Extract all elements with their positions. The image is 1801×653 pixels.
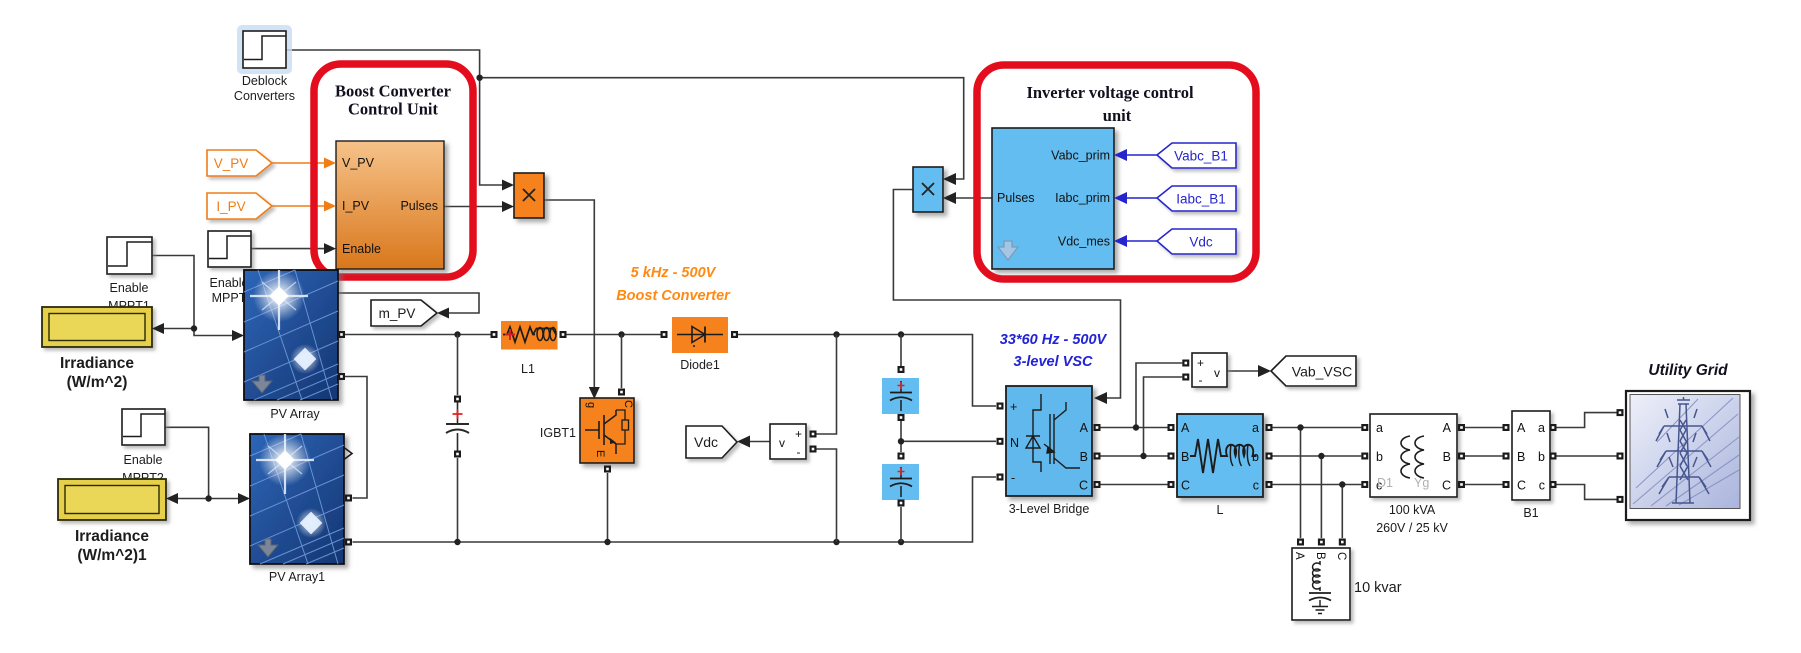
svg-text:Irradiance: Irradiance [60, 355, 134, 372]
node junction phase A tap [1133, 424, 1139, 430]
subsystem Inverter voltage control unit [992, 128, 1114, 269]
wire B1 to Utility Grid phase c [1557, 485, 1617, 500]
svg-text:3-level VSC: 3-level VSC [1014, 354, 1094, 370]
wire Vab_VSC voltmeter plus to phase A [1136, 363, 1182, 428]
svg-text:v: v [779, 436, 785, 450]
svg-text:C: C [622, 400, 634, 408]
wire transformer to B1 phase B [1465, 455, 1503, 457]
wire L to transformer phase c [1273, 484, 1362, 486]
arrowhead into PV Array Ir input [232, 330, 244, 341]
svg-text:C: C [1335, 552, 1347, 560]
svg-text:Boost Converter: Boost Converter [335, 82, 451, 101]
node junction shunt tap b [1318, 453, 1324, 459]
node junction bottom rail at capacitor [454, 539, 460, 545]
svg-text:I_PV: I_PV [216, 199, 245, 214]
node junction top rail at voltmeter [833, 331, 839, 337]
annotation box Inverter voltage control unit [977, 65, 1256, 279]
tag I_PV [207, 193, 272, 219]
step source Enable MPPT [208, 231, 251, 305]
svg-text:g: g [585, 402, 597, 408]
node junction bottom rail at capacitor C2 [898, 539, 904, 545]
block PV Array [244, 270, 338, 421]
wire B1 to Utility Grid phase b [1557, 455, 1617, 457]
wire Enable MPPT to Boost control Enable [251, 248, 327, 250]
arrowhead into PV Array1 Ir input [238, 493, 250, 504]
wire Vab_VSC voltmeter minus to phase B [1144, 377, 1183, 456]
svg-text:PV Array: PV Array [270, 407, 320, 421]
svg-text:Vabc_B1: Vabc_B1 [1174, 149, 1228, 164]
wire DC midpoint capacitors [901, 335, 996, 543]
tag Vdc from [1157, 229, 1236, 254]
node junction DC midpoint [898, 438, 904, 444]
wire inverter Pulses to X2 [954, 197, 992, 199]
arrowhead Vdc_mes input [1114, 235, 1127, 247]
step source Enable MPPT1 [107, 237, 152, 313]
wire Enable MPPT1 to Irradiance display and PV Array [152, 256, 235, 336]
svg-text:B: B [1314, 552, 1326, 560]
svg-text:c: c [1539, 479, 1545, 493]
svg-text:N: N [1010, 436, 1019, 450]
arrowhead into Vab_VSC tag [1258, 365, 1271, 377]
annotation box Boost Converter Control Unit [314, 64, 473, 277]
svg-text:V_PV: V_PV [214, 156, 249, 171]
display Irradiance (W/m^2) [42, 307, 152, 391]
svg-text:Control Unit: Control Unit [348, 100, 438, 119]
port squares [338, 331, 1624, 546]
node junction MPPT2 branch [205, 495, 211, 501]
arrowhead into Irradiance display1 [166, 493, 178, 504]
svg-text:Deblock: Deblock [242, 74, 288, 88]
tag Vab_VSC [1271, 356, 1356, 386]
wire Vdc tag to inverter control [1127, 240, 1157, 242]
tag Vabc_B1 [1157, 143, 1236, 168]
arrowhead I_PV into block [324, 201, 336, 212]
block Utility Grid [1626, 362, 1750, 520]
wire transformer to B1 phase C [1465, 484, 1503, 486]
svg-text:D1: D1 [1377, 476, 1393, 490]
svg-text:a: a [1252, 421, 1259, 435]
annotation title Inverter voltage control unit [1026, 83, 1194, 125]
annotation title Boost Converter Control Unit [335, 82, 451, 119]
unconnected output chevron PV Array1 m [344, 448, 352, 460]
svg-text:10 kvar: 10 kvar [1354, 580, 1402, 596]
svg-text:Pulses: Pulses [400, 199, 438, 213]
wire L to transformer phase a [1273, 427, 1362, 429]
svg-text:B: B [1181, 450, 1189, 464]
wire DC bottom rail [353, 477, 997, 542]
wire voltmeter Vdc output to Vdc tag [746, 441, 770, 443]
svg-text:+: + [1010, 400, 1017, 414]
svg-text:100 kVA: 100 kVA [1389, 503, 1436, 517]
svg-text:-: - [1011, 471, 1015, 485]
svg-text:A: A [1443, 421, 1452, 435]
arrowhead X2 input1 [943, 173, 956, 185]
svg-text:MPPT: MPPT [212, 291, 247, 305]
svg-text:260V / 25 kV: 260V / 25 kV [1376, 521, 1448, 535]
shunt filter 10 kvar [1292, 548, 1402, 620]
node junction top rail at capacitor C1 [898, 331, 904, 337]
arrowhead Iabc_prim input [1114, 192, 1127, 204]
arrowhead into Vdc tag [737, 436, 750, 448]
wire Enable MPPT2 to Irradiance display1 and PV Array1 [165, 427, 241, 498]
svg-text:Yg: Yg [1414, 476, 1429, 490]
node junction MPPT1 branch [191, 325, 197, 331]
tag Iabc_B1 [1157, 186, 1236, 211]
svg-text:(W/m^2): (W/m^2) [67, 374, 128, 391]
tag m_PV [371, 300, 437, 326]
node junction Deblock branch [476, 75, 482, 81]
display Irradiance (W/m^2)1 [58, 479, 166, 564]
wire voltmeter Vdc minus [817, 449, 837, 542]
wire X2 output to 3-Level Bridge pulses [893, 190, 1120, 399]
capacitor C2 DC link [882, 464, 919, 500]
svg-text:v: v [1214, 366, 1220, 380]
svg-text:5 kHz - 500V: 5 kHz - 500V [631, 265, 717, 281]
svg-text:+: + [795, 427, 802, 441]
arrowhead X1 input2 [502, 201, 514, 212]
svg-text:b: b [1376, 450, 1383, 464]
wire V_PV tag to boost control [272, 162, 327, 164]
diode Diode1 [672, 317, 728, 372]
svg-text:A: A [1293, 552, 1305, 560]
wire voltmeter Vdc plus [817, 335, 837, 435]
svg-text:Enable: Enable [342, 242, 381, 256]
filter inductor L three-phase [1177, 414, 1263, 517]
svg-text:A: A [1181, 421, 1190, 435]
transformer 100 kVA 260V/25kV [1370, 414, 1457, 535]
svg-text:33*60 Hz - 500V: 33*60 Hz - 500V [1000, 332, 1108, 348]
svg-text:c: c [1253, 479, 1259, 493]
svg-text:b: b [1538, 450, 1545, 464]
arrowhead into Irradiance display [152, 323, 164, 334]
svg-text:Enable: Enable [110, 281, 149, 295]
svg-text:C: C [1442, 479, 1451, 493]
svg-text:C: C [1517, 479, 1526, 493]
svg-text:L: L [1217, 503, 1224, 517]
svg-text:a: a [1538, 421, 1545, 435]
svg-text:Boost Converter: Boost Converter [616, 288, 731, 304]
product block X1 [514, 173, 544, 218]
svg-text:m_PV: m_PV [379, 306, 416, 321]
wire capacitor branch [457, 335, 459, 543]
capacitor C1 DC link [882, 378, 919, 414]
wire PV Array minus to PV Array1 plus [345, 377, 367, 499]
wire PV Array m output to m_PV tag [338, 293, 479, 313]
arrowhead IGBT gate [589, 387, 600, 399]
svg-text:C: C [1181, 479, 1190, 493]
svg-text:Iabc_B1: Iabc_B1 [1176, 192, 1226, 207]
wire B1 to Utility Grid phase a [1557, 413, 1617, 428]
svg-text:A: A [1517, 421, 1526, 435]
wire I_PV tag to boost control [272, 205, 327, 207]
svg-text:Vdc: Vdc [1189, 235, 1213, 250]
converter 3-Level Bridge [1006, 386, 1092, 516]
capacitor C PV bus [446, 402, 469, 451]
wire Iabc_B1 tag to inverter control [1127, 197, 1157, 199]
svg-text:I_PV: I_PV [342, 199, 370, 213]
wire bridge phase C to L [1101, 484, 1168, 486]
svg-text:C: C [1079, 479, 1088, 493]
svg-text:3-Level Bridge: 3-Level Bridge [1009, 502, 1090, 516]
wire bridge phase B to L [1101, 455, 1168, 457]
wire 10 kvar shunt taps [1301, 428, 1343, 539]
arrowhead Enable into block [324, 243, 336, 254]
svg-text:PV Array1: PV Array1 [269, 570, 325, 584]
arrowhead into m_PV tag [437, 308, 449, 319]
node junction shunt tap a [1297, 424, 1303, 430]
svg-text:B: B [1517, 450, 1525, 464]
svg-text:Vab_VSC: Vab_VSC [1292, 364, 1352, 380]
svg-text:Pulses: Pulses [997, 191, 1035, 205]
node junction phase B tap [1140, 453, 1146, 459]
wire X1 output to IGBT1 gate [544, 200, 594, 389]
step source Enable MPPT2 [122, 409, 165, 485]
svg-text:Irradiance: Irradiance [75, 528, 149, 545]
node junction shunt tap c [1339, 481, 1345, 487]
wire DC top rail [345, 334, 494, 336]
svg-text:a: a [1376, 421, 1383, 435]
voltmeter Vdc [770, 424, 806, 459]
wire Deblock to X1 and inverter X2 [286, 50, 964, 185]
inductor L1 [501, 321, 558, 376]
wire L to transformer phase b [1273, 455, 1362, 457]
svg-text:unit: unit [1103, 106, 1132, 125]
annotation 33*60 Hz - 500V 3-level VSC [1000, 332, 1108, 370]
svg-text:-: - [1199, 373, 1203, 387]
breaker B1 [1512, 411, 1550, 520]
svg-text:Inverter voltage control: Inverter voltage control [1026, 83, 1194, 102]
arrowhead Vabc_prim input [1114, 149, 1127, 161]
svg-text:L1: L1 [521, 362, 535, 376]
svg-text:IGBT1: IGBT1 [540, 426, 576, 440]
annotation 5 kHz - 500V Boost Converter [616, 265, 731, 304]
svg-text:B1: B1 [1523, 506, 1538, 520]
wire Vabc_B1 tag to inverter control [1127, 154, 1157, 156]
svg-text:Vabc_prim: Vabc_prim [1051, 149, 1110, 163]
step source Deblock Converters [234, 25, 295, 103]
voltmeter Vab_VSC [1192, 353, 1227, 387]
wire bridge phase A to L [1101, 427, 1168, 429]
svg-text:Vdc_mes: Vdc_mes [1058, 235, 1110, 249]
node junction bottom rail at IGBT [604, 539, 610, 545]
svg-text:Iabc_prim: Iabc_prim [1055, 191, 1110, 205]
svg-text:V_PV: V_PV [342, 156, 375, 170]
wire Vab_VSC voltmeter output to tag [1227, 370, 1261, 372]
node junction top rail at IGBT collector [618, 331, 624, 337]
svg-text:A: A [1080, 421, 1089, 435]
svg-text:B: B [1443, 450, 1451, 464]
block PV Array1 [250, 434, 344, 584]
svg-text:Vdc: Vdc [694, 434, 718, 450]
wire IGBT emitter to bottom rail [607, 473, 609, 542]
svg-text:-: - [797, 445, 801, 459]
tag V_PV [207, 150, 272, 176]
arrowhead X1 input1 [502, 180, 514, 191]
switch IGBT1 [540, 398, 634, 463]
arrowhead X2 input2 [943, 192, 956, 204]
svg-text:+: + [1197, 356, 1204, 370]
svg-text:Enable: Enable [210, 276, 249, 290]
svg-text:Diode1: Diode1 [680, 358, 720, 372]
subsystem Boost Converter Control Unit [336, 141, 444, 269]
wire IGBT collector branch [621, 335, 623, 389]
wire transformer to B1 phase A [1465, 427, 1503, 429]
svg-text:(W/m^2)1: (W/m^2)1 [77, 547, 147, 564]
wire Boost Pulses to X1 [444, 206, 505, 208]
arrowhead bridge pulses input [1094, 392, 1107, 404]
svg-text:Utility Grid: Utility Grid [1648, 362, 1728, 379]
svg-text:Enable: Enable [124, 453, 163, 467]
node junction top rail at capacitor [454, 331, 460, 337]
svg-text:B: B [1080, 450, 1088, 464]
product block X2 [913, 167, 943, 212]
node junction bottom rail at voltmeter [833, 539, 839, 545]
svg-text:E: E [594, 450, 606, 457]
tag Vdc goto [686, 426, 737, 458]
arrowhead V_PV into block [324, 158, 336, 169]
svg-text:Converters: Converters [234, 89, 295, 103]
